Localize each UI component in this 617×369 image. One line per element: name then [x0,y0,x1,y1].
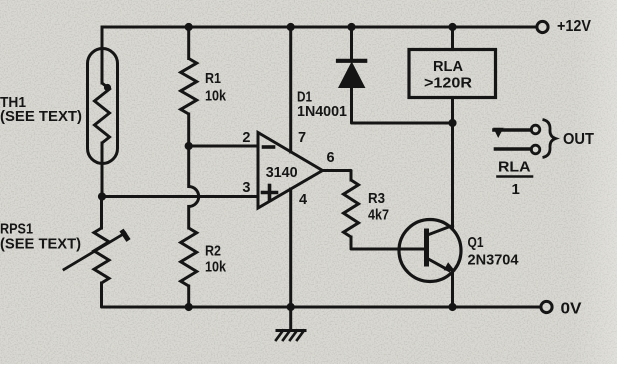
op-amp non-inverting input plus sign [263,191,277,195]
op-amp inverting input minus sign [264,145,274,149]
wire TH1 bottom lead to node [101,143,104,197]
terminal 0V [541,301,552,312]
relay contact lower [496,147,532,151]
wire TH1 top drop [101,27,104,52]
wire RPS1 bottom lead [100,283,103,305]
relay contact lower terminal circle [531,145,540,154]
svg-text:R3: R3 [368,190,385,207]
resistor R1 top lead [187,27,190,59]
node junction R1/top rail [185,23,193,31]
wire R1-R2 vertical with hop over pin3 wire [187,146,190,187]
relay contact upper terminal circle [531,125,540,134]
wire TH1 internal top lead [101,52,104,83]
transistor Q1 emitter stroke [428,259,450,271]
svg-text:3: 3 [242,180,250,196]
thermistor TH1 bead dot [104,84,111,91]
svg-text:10k: 10k [205,88,227,105]
thermistor TH1 envelope [88,49,118,164]
svg-text:6: 6 [327,150,335,166]
svg-text:OUT: OUT [563,131,595,148]
op-amp U1 triangle [258,133,323,209]
diode D1 cathode bar [338,59,365,63]
svg-text:RLA: RLA [433,58,463,75]
thermistor TH1 element [95,83,110,143]
node junction R2/bottom rail [185,303,193,311]
svg-text:7: 7 [298,130,306,146]
svg-text:0V: 0V [561,301,583,318]
wire pin2 horizontal to op-amp [189,145,258,148]
node junction Q1 emitter/bottom rail [448,303,456,311]
node D1/RLA/collector junction [448,119,456,127]
node junction pin7/top rail [287,23,295,31]
svg-text:4: 4 [299,192,307,208]
svg-text:(SEE TEXT): (SEE TEXT) [0,236,81,253]
svg-text:R2: R2 [205,242,221,259]
transistor Q1 emitter arrowhead [444,262,456,271]
relay contact upper (with arrow) [494,128,531,132]
svg-text:(SEE TEXT): (SEE TEXT) [0,108,82,125]
resistor R1 [181,59,197,115]
svg-text:2N3704: 2N3704 [468,251,520,268]
ground symbol [289,307,292,331]
wire pin 7 to +12V rail [289,27,292,152]
terminal +12V [537,21,548,32]
svg-text:1N4001: 1N4001 [297,103,347,120]
node TH1/RPS1/pin3 junction [98,192,106,200]
wire Q1 emitter to bottom rail [451,272,454,307]
wire relay node down to Q1 collector [451,123,454,229]
wire RPS1 top lead [100,197,103,229]
preset resistor RPS1 element [94,228,109,283]
wire R2 bottom lead [187,286,190,307]
svg-text:3140: 3140 [266,164,298,181]
preset RPS1 arrow [64,233,125,270]
transistor Q1 body circle [399,220,461,282]
svg-text:1: 1 [512,181,520,198]
wire D1 anode lead down and right to relay node [352,88,453,124]
resistor R2 [181,228,197,286]
wire pin3 horizontal from node to op-amp [102,195,258,198]
contact fraction line [498,175,533,178]
wire RLA top lead [451,27,454,50]
wire R1 bottom lead to pin2 node [187,114,190,146]
svg-text:Q1: Q1 [468,234,484,251]
svg-text:10k: 10k [205,259,227,276]
node R1/pin2 junction [185,142,193,150]
svg-text:>120R: >120R [424,75,472,92]
wire R3 bottom to Q1 base [351,237,426,249]
brace for OUT [543,120,556,158]
svg-text:RLA: RLA [498,159,531,176]
wire pin 6 output [323,171,352,181]
resistor R3 [344,180,359,237]
svg-text:2: 2 [242,130,250,146]
wire top +12V rail [102,26,537,29]
diode D1 lead from rail [350,27,353,60]
node junction pin4-ground/bottom rail [287,303,295,311]
wire pin 4 to ground rail [289,189,292,307]
node junction RLA/top rail [448,23,456,31]
relay coil RLA box [409,50,496,98]
svg-text:4k7: 4k7 [368,207,389,224]
wire RLA bottom lead to collector node [451,98,454,124]
svg-text:R1: R1 [205,70,221,87]
node junction D1/top rail [347,23,355,31]
transistor Q1 base bar [424,231,429,264]
diode D1 triangle [339,63,365,88]
transistor Q1 collector stroke [428,226,453,236]
wire bottom 0V rail [102,305,541,307]
svg-text:+12V: +12V [557,18,592,35]
